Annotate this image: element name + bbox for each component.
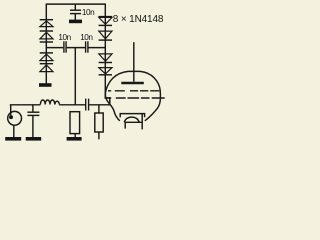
tube heater arc [124,117,139,122]
diode D2 (left string) [40,31,53,39]
svg-text:8 × 1N4148: 8 × 1N4148 [113,14,164,25]
tube cathode [120,114,144,118]
resistor R1 (shunt) [70,112,80,138]
ground (left diode string) [39,83,52,87]
svg-text:10n: 10n [58,33,71,42]
tube grid row 2 (dashed, with lead to node) [105,97,165,99]
wire C4 top lead [32,105,34,112]
resistor R2 (grid leak) [95,105,103,140]
wire bottom signal rail [10,104,41,106]
wire left diode string vertical [45,4,47,83]
diode D7 (right string) [99,31,112,40]
diode D8 (right string) [99,54,112,63]
tube heater baseline [124,121,141,123]
wire R2 bottom stub [98,132,100,139]
wire stub top filter cap [74,4,76,10]
svg-text:10n: 10n [80,33,93,42]
wire top rail [46,3,106,5]
source ball terminal [9,115,13,119]
ground (below C1) [69,20,82,24]
capacitor C2 10n (series, left) [64,41,66,52]
wire source top lead [10,105,12,115]
diode D5 (left string, bottom) [40,64,53,72]
capacitor C1 10n (top, to ground) [70,10,81,13]
diode D9 (right string, bottom) [99,68,112,75]
source: signal generator [8,105,22,137]
capacitor C4 (shunt at input) [27,105,39,137]
ground (C4) [26,137,42,141]
wire R1 bottom lead [74,134,76,138]
source circle [8,111,22,125]
tube heater left leg [124,122,126,128]
ground (source) [5,137,21,141]
wire grid lead jog [105,98,110,105]
diode D3 cathode bar (left string) [40,41,53,43]
tube plate lead [133,42,135,82]
wire C3 to right diode string [89,47,106,49]
wire R2 top lead [98,105,100,113]
wire junction vertical (tap node down to signal rail) [74,48,76,105]
wire tap from left string to C2 [46,47,63,49]
wire stub below C1 [74,14,76,20]
wire C4 bottom lead [32,115,34,137]
tube plate (anode) bar [121,82,144,84]
ground (R1) [67,137,82,141]
svg-text:10n: 10n [82,8,95,17]
tube envelope [105,71,160,120]
tube cathode lead [141,114,143,130]
inductor L1 [40,100,59,104]
tube grid row 1 (dashed) [108,90,159,92]
capacitor C3 10n (series, right) [86,41,88,52]
capacitor C5 (coupling, on rail) [86,99,89,111]
diode D4 (left string) [40,53,53,61]
diode D1 (left string, top) [40,20,53,27]
wire C2 to C3 with junction [67,47,85,49]
wire right diode string vertical [104,4,106,98]
vacuum tube V1 [105,42,165,129]
diode D6 (right string, top) [99,17,112,26]
wire source bottom lead [13,125,15,137]
